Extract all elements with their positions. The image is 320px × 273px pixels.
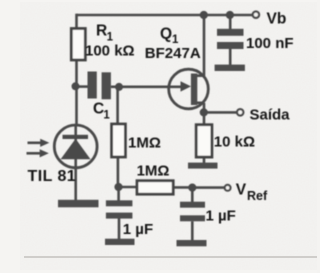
junction node source-output [200,108,208,116]
wire left 1uF cap stub [117,187,120,201]
svg-text:Q: Q [160,26,172,43]
wire 100nF stub from top rail [229,15,232,29]
terminal VRef [225,185,231,191]
svg-text:R: R [96,23,107,40]
capacitor 1uF left plates [106,200,132,218]
svg-text:100 kΩ: 100 kΩ [85,42,135,59]
photodiode TIL81 [54,125,97,168]
svg-text:Saída: Saída [250,107,291,124]
scan artifact line bottom [24,256,317,258]
wire VRef node to 1M horizontal resistor [118,186,137,189]
resistor 1M horizontal body [137,181,173,195]
terminal Vb [253,12,259,18]
svg-text:Vb: Vb [267,10,287,27]
light arrow 2 into TIL81 [27,149,49,157]
wire Q1 source to output node [203,103,206,113]
resistor 10k body [196,125,212,157]
junction node VRef-left [114,183,122,191]
wire VRef node to VRef terminal [192,186,225,189]
junction node gate [115,83,123,91]
wire 1M horizontal resistor to VRef right node [173,186,192,189]
capacitor 100nF plates [217,29,244,49]
ground of 1uF right [177,240,207,246]
terminal Saida [237,109,243,115]
resistor 1M vertical body [112,124,126,157]
ground of 100nF [215,65,245,71]
wire 10k resistor to ground [203,157,206,163]
svg-text:1: 1 [103,110,110,122]
wire output node to Saida terminal [204,111,237,114]
junction node drain-top [200,11,208,19]
wire 1M vertical resistor to VRef node [117,157,120,187]
wire TIL81 anode to ground [74,167,77,200]
wire Q1 drain rail [203,14,206,76]
wire left 1uF cap stem to ground [118,219,121,240]
wire gate node down to 1M vertical resistor [116,87,119,124]
wire right 1uF cap stem to ground [191,221,194,240]
resistor R1 body [71,29,85,61]
svg-text:BF247A: BF247A [145,45,201,62]
svg-text:100 nF: 100 nF [246,35,294,52]
capacitor 1uF right plates [180,202,205,222]
svg-text:10 kΩ: 10 kΩ [214,133,255,150]
svg-text:1 µF: 1 µF [206,207,236,224]
light arrow 1 into TIL81 [28,139,50,147]
svg-text:1MΩ: 1MΩ [137,163,170,180]
wire right 1uF cap stub [191,188,194,202]
wire 100nF stem to ground [229,49,232,66]
junction node 100nF-top [226,11,234,19]
svg-text:V: V [236,181,247,198]
junction node VRef-right [188,184,196,192]
wire left rail top (top rail to R1) [75,14,78,29]
wire output node to 10k resistor [203,112,206,125]
svg-text:Ref: Ref [247,189,268,203]
wire gate node to Q1 gate [120,86,184,89]
svg-text:1MΩ: 1MΩ [128,134,161,151]
ground of TIL81 [58,200,99,208]
junction node C1 left [72,82,80,90]
transistor Q1 (JFET) [169,69,209,109]
wire C1 node to C1 left plate [76,85,88,88]
svg-text:TIL 81: TIL 81 [28,168,77,185]
capacitor C1 plates [88,72,111,100]
wire C1 right plate to gate node [111,86,120,89]
wire top supply rail [77,14,253,17]
svg-text:1 µF: 1 µF [123,221,153,238]
ground of 1uF left [105,239,135,245]
ground of 10k [188,163,218,169]
wire R1 bottom to C1 node [75,60,78,125]
